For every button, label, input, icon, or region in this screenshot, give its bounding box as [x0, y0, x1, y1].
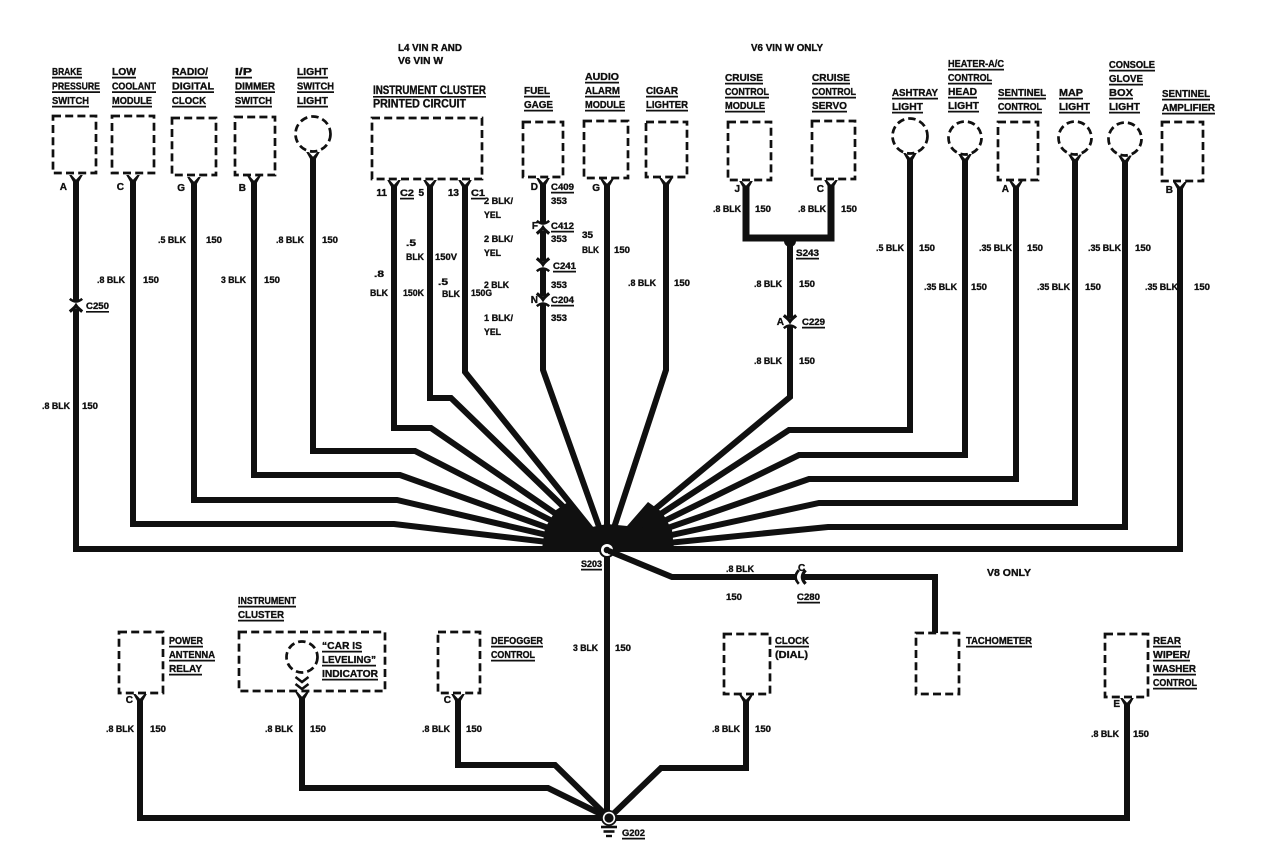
instrument cluster printed circuit — [372, 85, 487, 189]
svg-text:TACHOMETER: TACHOMETER — [966, 635, 1032, 647]
svg-text:150: 150 — [971, 282, 987, 293]
wire label 3 BLK 150 (trunk) — [573, 643, 631, 654]
svg-text:150: 150 — [1135, 243, 1151, 254]
wire label .35 BLK 150 (heater) — [924, 282, 987, 293]
svg-text:INSTRUMENT CLUSTER: INSTRUMENT CLUSTER — [373, 85, 487, 97]
svg-text:LIGHT: LIGHT — [1059, 101, 1091, 113]
svg-text:(DIAL): (DIAL) — [775, 649, 808, 661]
note: L4 VIN R AND V6 VIN W — [398, 43, 462, 67]
svg-text:C229: C229 — [802, 317, 825, 328]
rear wiper/washer control — [1105, 634, 1197, 707]
svg-text:PRINTED CIRCUIT: PRINTED CIRCUIT — [373, 99, 466, 111]
svg-text:DIGITAL: DIGITAL — [172, 81, 215, 93]
svg-text:150: 150 — [799, 279, 815, 290]
svg-text:.8 BLK: .8 BLK — [276, 235, 304, 246]
svg-text:SENTINEL: SENTINEL — [1162, 88, 1211, 100]
svg-text:MODULE: MODULE — [112, 95, 152, 107]
cruise control module — [725, 72, 771, 190]
wire: instrument cluster to ground G202, .8 BLK 150 — [295, 692, 609, 818]
wire: splice S203 to tachometer, .8 BLK 150, V8 only — [609, 551, 935, 633]
svg-text:FUEL: FUEL — [524, 85, 551, 97]
splice S243 — [784, 235, 819, 259]
svg-text:S203: S203 — [581, 559, 602, 570]
svg-text:G: G — [177, 183, 185, 194]
svg-text:PRESSURE: PRESSURE — [52, 81, 100, 93]
wire: sentinel control to splice S203, .35 BLK 150 — [607, 187, 1016, 549]
svg-text:WIPER/: WIPER/ — [1153, 649, 1190, 661]
svg-text:150: 150 — [799, 356, 815, 367]
svg-text:INSTRUMENT: INSTRUMENT — [238, 595, 296, 607]
wire label .35 BLK 150 (console glove box) — [1088, 243, 1151, 254]
fuel gage — [523, 85, 563, 187]
svg-text:BLK: BLK — [442, 289, 460, 300]
wire label .35 BLK 150 (map light) — [1037, 282, 1101, 293]
svg-text:B: B — [1166, 185, 1173, 196]
svg-text:AMPLIFIER: AMPLIFIER — [1162, 102, 1215, 114]
svg-text:.8 BLK: .8 BLK — [42, 401, 70, 412]
wire label .8 BLK 150 (tachometer branch) — [726, 564, 754, 603]
wire: brake pressure switch to splice S203, .8 BLK 150 — [76, 181, 607, 549]
svg-text:3 BLK: 3 BLK — [221, 275, 246, 286]
svg-text:MODULE: MODULE — [585, 99, 625, 111]
svg-text:150: 150 — [466, 724, 482, 735]
wire: ashtray light to splice S203, .5 BLK 150 — [607, 159, 910, 549]
wire label .8 BLK 150 (cigar lighter) — [628, 278, 690, 289]
svg-text:2 BLK/: 2 BLK/ — [484, 234, 513, 245]
pin G of radio/digital clock — [177, 183, 185, 194]
connector C250 — [70, 299, 109, 312]
svg-text:INDICATOR: INDICATOR — [322, 668, 378, 680]
wire: audio alarm module to splice S203, 35 BLK 150 — [604, 185, 610, 549]
pin 13 and connector C1 of instrument cluster — [448, 188, 486, 199]
svg-text:150: 150 — [82, 401, 98, 412]
svg-text:J: J — [734, 184, 740, 195]
svg-text:SWITCH: SWITCH — [235, 95, 272, 107]
svg-text:35: 35 — [582, 230, 594, 241]
svg-text:CONTROL: CONTROL — [998, 101, 1042, 113]
wire label .8 BLK 150 (cruise servo) — [798, 204, 857, 215]
svg-text:C: C — [444, 695, 451, 706]
svg-text:.5: .5 — [406, 238, 417, 249]
svg-text:E: E — [1113, 699, 1120, 710]
svg-text:.8 BLK: .8 BLK — [106, 724, 134, 735]
svg-text:150: 150 — [614, 245, 630, 256]
svg-text:353: 353 — [551, 234, 567, 245]
svg-text:C204: C204 — [551, 295, 575, 306]
wire label .8 BLK 150 (light switch light) — [276, 235, 338, 246]
pin G of audio alarm module — [592, 183, 600, 194]
svg-text:B: B — [239, 183, 246, 194]
svg-text:LEVELING”: LEVELING” — [322, 654, 376, 666]
pin C of power antenna relay — [126, 695, 133, 706]
wire: cruise control module to splice S243, .8 BLK 150 — [746, 187, 790, 238]
svg-text:ALARM: ALARM — [585, 85, 620, 97]
wire label .8 BLK 150 (C229 to S203) — [754, 356, 815, 367]
svg-text:YEL: YEL — [484, 248, 501, 259]
svg-text:150: 150 — [1027, 243, 1043, 254]
wire label 35 BLK 150 (audio alarm) — [582, 230, 630, 256]
svg-text:.8 BLK: .8 BLK — [1091, 729, 1119, 740]
svg-text:A: A — [777, 317, 784, 328]
wire label .8 BLK 150 (defogger control) — [422, 724, 482, 735]
svg-text:BLK: BLK — [406, 252, 424, 263]
svg-text:353: 353 — [551, 196, 567, 207]
svg-text:150: 150 — [615, 643, 631, 654]
svg-text:SWITCH: SWITCH — [52, 95, 89, 107]
wire label 2 BLK/YEL 353 (fuel gage upper) — [484, 196, 513, 221]
svg-text:SWITCH: SWITCH — [297, 81, 334, 93]
svg-text:.35 BLK: .35 BLK — [979, 243, 1012, 254]
svg-text:DIMMER: DIMMER — [235, 81, 275, 93]
svg-text:150: 150 — [726, 592, 742, 603]
wire: splice S243 to splice S203, .8 BLK 150 — [607, 238, 790, 549]
svg-text:150: 150 — [310, 724, 326, 735]
svg-text:150: 150 — [1133, 729, 1149, 740]
wire label .8 BLK 150 (S243 to C229) — [754, 279, 815, 290]
svg-text:.8 BLK: .8 BLK — [798, 204, 826, 215]
svg-text:CIGAR: CIGAR — [646, 85, 678, 97]
tachometer — [916, 633, 1032, 694]
svg-text:3 BLK: 3 BLK — [573, 643, 598, 654]
svg-text:ANTENNA: ANTENNA — [169, 649, 215, 661]
instrument cluster (car is leveling indicator) — [238, 595, 385, 691]
svg-text:HEAD: HEAD — [948, 86, 977, 98]
audio alarm module — [584, 71, 628, 188]
cruise control servo — [812, 72, 856, 189]
svg-text:150: 150 — [264, 275, 280, 286]
wire label .8 BLK 150 (power antenna relay) — [106, 724, 166, 735]
wire: fuel gage to splice S203 — [543, 184, 607, 549]
svg-text:LIGHT: LIGHT — [948, 100, 980, 112]
svg-text:.35 BLK: .35 BLK — [924, 282, 957, 293]
svg-text:GLOVE: GLOVE — [1109, 73, 1143, 85]
svg-text:REAR: REAR — [1153, 635, 1181, 647]
svg-text:1 BLK/: 1 BLK/ — [484, 313, 513, 324]
svg-text:CRUISE: CRUISE — [725, 72, 763, 84]
svg-text:LIGHT: LIGHT — [297, 95, 329, 107]
svg-text:2 BLK: 2 BLK — [484, 280, 509, 291]
wire: map light to splice S203, .35 BLK 150 — [607, 160, 1075, 549]
wire label .5 BLK 150G — [438, 277, 492, 300]
wire label .35 BLK 150 (sentinel amplifier) — [1145, 282, 1210, 293]
svg-text:150: 150 — [841, 204, 857, 215]
sentinel control — [998, 87, 1047, 190]
pin J of cruise control module — [734, 184, 740, 195]
svg-text:150: 150 — [755, 724, 771, 735]
svg-text:WASHER: WASHER — [1153, 663, 1196, 675]
note: V6 VIN W ONLY — [751, 43, 823, 54]
svg-text:150: 150 — [322, 235, 338, 246]
svg-text:A: A — [1002, 184, 1009, 195]
svg-text:.5: .5 — [438, 277, 449, 288]
svg-text:.8 BLK: .8 BLK — [713, 204, 741, 215]
svg-text:RELAY: RELAY — [169, 663, 202, 675]
wire label 2 BLK/YEL 353 (fuel gage mid) — [484, 234, 513, 259]
wire junction black fan at splice S203 — [542, 500, 674, 551]
sentinel amplifier — [1162, 88, 1215, 191]
wire: defogger control to ground G202, .8 BLK 150 — [458, 700, 609, 818]
wire: cluster pin 5 to splice S203, .5 BLK 150V — [430, 186, 607, 549]
svg-text:150: 150 — [1085, 282, 1101, 293]
svg-text:S243: S243 — [796, 248, 819, 259]
svg-text:BOX: BOX — [1109, 87, 1133, 99]
svg-text:.8 BLK: .8 BLK — [97, 275, 125, 286]
svg-text:LIGHT: LIGHT — [297, 66, 329, 78]
svg-text:.8 BLK: .8 BLK — [422, 724, 450, 735]
svg-text:D: D — [531, 182, 538, 193]
svg-text:11: 11 — [376, 188, 387, 199]
svg-text:MODULE: MODULE — [725, 100, 765, 112]
svg-text:COOLANT: COOLANT — [112, 81, 156, 93]
svg-text:150: 150 — [206, 235, 222, 246]
svg-text:C: C — [126, 695, 133, 706]
wire label 3 BLK 150 (dimmer) — [221, 275, 280, 286]
svg-text:LIGHT: LIGHT — [892, 101, 924, 113]
svg-text:G: G — [592, 183, 600, 194]
wire: cluster pin 11 to splice S203, .8 BLK 150K — [394, 186, 607, 549]
connector C280, pin C — [796, 563, 820, 603]
svg-text:V6 VIN W: V6 VIN W — [398, 56, 444, 67]
svg-text:F: F — [532, 221, 538, 232]
svg-text:AUDIO: AUDIO — [585, 71, 619, 83]
svg-text:V6 VIN W ONLY: V6 VIN W ONLY — [751, 43, 823, 54]
svg-text:2 BLK/: 2 BLK/ — [484, 196, 513, 207]
svg-text:CONTROL: CONTROL — [948, 72, 992, 84]
svg-text:.35 BLK: .35 BLK — [1145, 282, 1178, 293]
svg-text:BLK: BLK — [582, 245, 599, 256]
wire: clock to ground G202, .8 BLK 150 — [609, 701, 746, 818]
svg-text:C250: C250 — [86, 301, 109, 312]
svg-text:CLOCK: CLOCK — [172, 95, 206, 107]
svg-text:V8 ONLY: V8 ONLY — [987, 568, 1031, 579]
car is leveling indicator lamp chevrons — [296, 677, 309, 689]
svg-text:.5 BLK: .5 BLK — [158, 235, 186, 246]
pin E of rear wiper/washer control — [1113, 699, 1120, 710]
svg-text:CONSOLE: CONSOLE — [1109, 59, 1155, 71]
svg-text:.8: .8 — [374, 269, 384, 280]
pin C of defogger control — [444, 695, 451, 706]
svg-text:150: 150 — [150, 724, 166, 735]
wire label .35 BLK 150 (sentinel control) — [979, 243, 1043, 254]
svg-text:.5 BLK: .5 BLK — [876, 243, 904, 254]
svg-text:DEFOGGER: DEFOGGER — [491, 635, 543, 647]
svg-text:C409: C409 — [551, 182, 574, 193]
svg-text:.8 BLK: .8 BLK — [754, 356, 782, 367]
wire: low coolant module to splice S203, .8 BLK 150 — [133, 181, 607, 549]
svg-text:YEL: YEL — [484, 327, 501, 338]
svg-text:150: 150 — [674, 278, 690, 289]
svg-text:150: 150 — [1194, 282, 1210, 293]
map light — [1059, 87, 1092, 163]
pin A of brake pressure switch — [60, 182, 67, 193]
svg-text:LIGHTER: LIGHTER — [646, 99, 688, 111]
wire: splice S203 to ground G202, 3 BLK 150 — [604, 557, 610, 818]
svg-text:.8 BLK: .8 BLK — [265, 724, 293, 735]
svg-text:CONTROL: CONTROL — [491, 649, 535, 661]
wire label .8 BLK 150 (rear wiper/washer) — [1091, 729, 1149, 740]
wire: power antenna relay to ground G202, .8 BLK 150 — [140, 700, 609, 818]
svg-text:CONTROL: CONTROL — [812, 86, 856, 98]
pin 5 of instrument cluster — [418, 188, 424, 199]
svg-text:N: N — [531, 295, 538, 306]
svg-text:.35 BLK: .35 BLK — [1037, 282, 1070, 293]
svg-text:C412: C412 — [551, 221, 574, 232]
wire label .8 BLK 150 (low coolant module) — [97, 275, 159, 286]
svg-text:C241: C241 — [553, 261, 577, 272]
brake pressure switch — [52, 66, 100, 184]
wire label .8 BLK 150K — [370, 269, 424, 299]
pin A of sentinel control — [1002, 184, 1009, 195]
pin 11 and connector C2 of instrument cluster — [376, 188, 414, 199]
i/p dimmer switch — [235, 66, 275, 185]
ashtray light — [892, 87, 938, 162]
svg-text:CRUISE: CRUISE — [812, 72, 850, 84]
svg-text:A: A — [60, 182, 67, 193]
svg-text:150: 150 — [755, 204, 771, 215]
connector C229, pin A — [777, 315, 825, 328]
console glove box light — [1109, 59, 1156, 164]
svg-text:150K: 150K — [403, 288, 424, 299]
svg-text:HEATER-A/C: HEATER-A/C — [948, 58, 1004, 70]
connector C412, pin F — [532, 221, 574, 245]
svg-text:C280: C280 — [797, 592, 820, 603]
svg-text:13: 13 — [448, 188, 460, 199]
clock (dial) — [724, 634, 809, 704]
svg-text:POWER: POWER — [169, 635, 203, 647]
svg-text:150: 150 — [143, 275, 159, 286]
svg-text:.8 BLK: .8 BLK — [754, 279, 782, 290]
wire label .8 BLK 150 (instrument cluster) — [265, 724, 326, 735]
svg-text:LIGHT: LIGHT — [1109, 101, 1141, 113]
wire: light switch light to splice S203, .8 BLK 150 — [313, 158, 607, 549]
radio/digital clock — [172, 66, 216, 186]
pin B of i/p dimmer switch — [239, 183, 246, 194]
svg-text:SERVO: SERVO — [812, 100, 847, 112]
svg-text:.8 BLK: .8 BLK — [712, 724, 740, 735]
svg-text:I/P: I/P — [235, 66, 252, 78]
wire label .8 BLK 150 (clock) — [712, 724, 771, 735]
svg-text:C: C — [817, 184, 824, 195]
svg-text:.8 BLK: .8 BLK — [726, 564, 754, 575]
svg-text:LOW: LOW — [112, 66, 136, 78]
svg-text:.8 BLK: .8 BLK — [628, 278, 656, 289]
ground G202 — [601, 810, 645, 839]
svg-text:L4 VIN R AND: L4 VIN R AND — [398, 43, 462, 54]
svg-text:BLK: BLK — [370, 288, 388, 299]
svg-text:“CAR IS: “CAR IS — [322, 640, 362, 652]
wire: heater-a/c control head light to splice S203, .35 BLK 150 — [607, 160, 965, 549]
svg-text:CONTROL: CONTROL — [1153, 677, 1197, 689]
pin B of sentinel amplifier — [1166, 185, 1173, 196]
low coolant module — [112, 66, 156, 184]
svg-text:C: C — [117, 182, 124, 193]
svg-text:CLUSTER: CLUSTER — [238, 609, 284, 621]
wire: cruise control servo to splice S243, .8 BLK 150 — [790, 186, 831, 238]
label: car is leveling indicator — [322, 640, 378, 680]
svg-text:C2: C2 — [400, 188, 414, 199]
cigar lighter — [646, 85, 688, 187]
wire: cluster pin 13 to splice S203, .5 BLK 150G — [465, 186, 607, 549]
svg-text:CLOCK: CLOCK — [775, 635, 809, 647]
svg-text:MAP: MAP — [1059, 87, 1083, 99]
svg-text:RADIO/: RADIO/ — [172, 66, 208, 78]
svg-text:YEL: YEL — [484, 210, 501, 221]
connector C204, pin N — [531, 293, 575, 324]
svg-text:150V: 150V — [435, 252, 458, 263]
svg-text:.35 BLK: .35 BLK — [1088, 243, 1121, 254]
svg-text:CONTROL: CONTROL — [725, 86, 769, 98]
wire label .5 BLK 150 (radio) — [158, 235, 222, 246]
pin C of cruise control servo — [817, 184, 824, 195]
heater-a/c control head light — [948, 58, 1004, 163]
wire: cigar lighter to splice S203, .8 BLK 150 — [607, 184, 666, 549]
note: V8 ONLY — [987, 568, 1031, 579]
wire: console glove box light to splice S203, .35 BLK 150 — [607, 161, 1125, 549]
wire label 2 BLK 353 — [484, 280, 509, 291]
defogger control — [438, 632, 543, 703]
svg-text:5: 5 — [418, 188, 424, 199]
svg-text:G202: G202 — [622, 828, 645, 839]
wire label 1 BLK/YEL 353 — [484, 313, 513, 338]
svg-text:C: C — [798, 563, 805, 574]
svg-text:BRAKE: BRAKE — [52, 66, 82, 78]
wire: rear wiper/washer control to ground G202, .8 BLK 150 — [609, 704, 1127, 818]
wire label .8 BLK 150 (cruise module) — [713, 204, 771, 215]
svg-text:353: 353 — [551, 313, 567, 324]
svg-text:GAGE: GAGE — [524, 99, 553, 111]
connector C241 — [537, 258, 577, 291]
svg-text:353: 353 — [551, 280, 567, 291]
wire label .5 BLK 150 (ashtray) — [876, 243, 935, 254]
light switch light — [296, 66, 335, 161]
splice S203 — [581, 542, 615, 570]
pin D of fuel gage and connector C409 — [531, 182, 574, 207]
wire: radio/digital clock to splice S203, .5 BLK 150 — [194, 183, 607, 549]
svg-text:SENTINEL: SENTINEL — [998, 87, 1047, 99]
wire label .8 BLK 150 (brake pressure switch) — [42, 401, 98, 412]
wire: sentinel amplifier to splice S203, .35 BLK 150 — [607, 188, 1180, 549]
wire: i/p dimmer switch to splice S203, 3 BLK 150 — [254, 182, 607, 549]
svg-text:150: 150 — [919, 243, 935, 254]
wire label .5 BLK 150V — [406, 238, 458, 263]
power antenna relay — [119, 632, 215, 703]
svg-text:ASHTRAY: ASHTRAY — [892, 87, 938, 99]
pin C of low coolant module — [117, 182, 124, 193]
